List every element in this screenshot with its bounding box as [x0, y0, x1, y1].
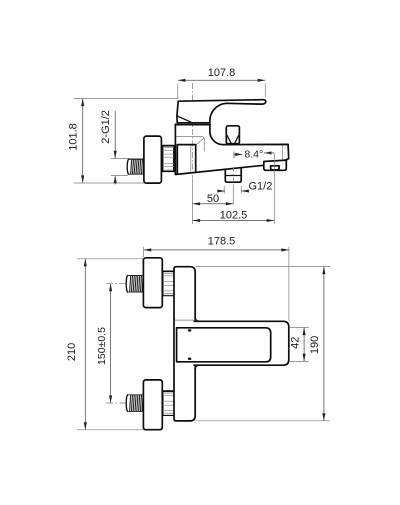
wall escutcheon (side view)	[144, 136, 162, 183]
handle lever	[177, 100, 266, 123]
svg-text:107.8: 107.8	[208, 67, 236, 79]
aerator housing	[264, 160, 287, 170]
shower outlet (side view)	[225, 167, 241, 205]
svg-text:G1/2: G1/2	[249, 181, 273, 193]
spout hidden junction line	[175, 319, 196, 321]
upper escutcheon (plan)	[143, 258, 162, 308]
spout upper outline with neck curve	[210, 124, 289, 160]
svg-text:102.5: 102.5	[220, 210, 248, 222]
dimension 42	[289, 328, 309, 362]
svg-text:150±0.5: 150±0.5	[96, 327, 108, 365]
mounting nut (side view)	[163, 146, 174, 172]
dimension 178.5	[144, 235, 289, 321]
lower thread (plan)	[126, 395, 143, 412]
faucet body (plan)	[174, 267, 195, 421]
upper mounting nut (plan)	[163, 271, 175, 295]
label G1/2 outlet dimension	[217, 181, 272, 194]
svg-text:2-G1/2: 2-G1/2	[100, 110, 112, 144]
svg-text:178.5: 178.5	[208, 235, 236, 247]
svg-text:42: 42	[290, 337, 302, 349]
cartridge inner edge	[190, 146, 192, 172]
spout (plan)	[194, 321, 289, 365]
dimension 150±0.5	[96, 284, 112, 403]
upper thread (plan)	[126, 275, 143, 292]
dimension 50	[193, 179, 234, 225]
handle underside wedge	[177, 116, 192, 122]
dimension 102.5	[193, 161, 275, 224]
svg-text:101.8: 101.8	[68, 123, 80, 151]
svg-text:8.4°: 8.4°	[244, 149, 263, 161]
screw dot upper	[188, 329, 192, 332]
lower inlet axis centerline	[106, 402, 183, 404]
spout top surface (plan)	[177, 328, 271, 362]
angle label 8.4	[234, 149, 274, 161]
spout tip panel line	[282, 145, 284, 160]
body-spout fillet upper	[195, 318, 198, 321]
dimension 210	[66, 259, 162, 430]
lower mounting nut (plan)	[163, 391, 175, 415]
dimension 101.8 line	[68, 99, 179, 184]
body front face	[177, 145, 195, 174]
body-spout fillet lower	[195, 365, 198, 368]
svg-text:50: 50	[207, 193, 219, 205]
svg-text:210: 210	[66, 343, 78, 361]
cartridge top line	[175, 124, 210, 126]
label 2-G1/2 with leader	[100, 110, 160, 184]
dimension 107.8 line	[178, 67, 265, 99]
body back silhouette (thin 3D lines)	[176, 136, 204, 151]
body and spout outline	[175, 124, 263, 174]
diverter knob on spout	[226, 126, 239, 144]
wall thread (side view)	[127, 159, 144, 174]
centerline of valve axis (vertical dash-dot)	[192, 83, 194, 178]
screw dot lower	[188, 357, 192, 360]
lower escutcheon (plan)	[143, 380, 162, 430]
upper inlet axis centerline	[106, 283, 183, 285]
svg-text:190: 190	[309, 336, 321, 354]
dimension 190	[196, 267, 331, 421]
aerator nozzle	[271, 166, 280, 170]
